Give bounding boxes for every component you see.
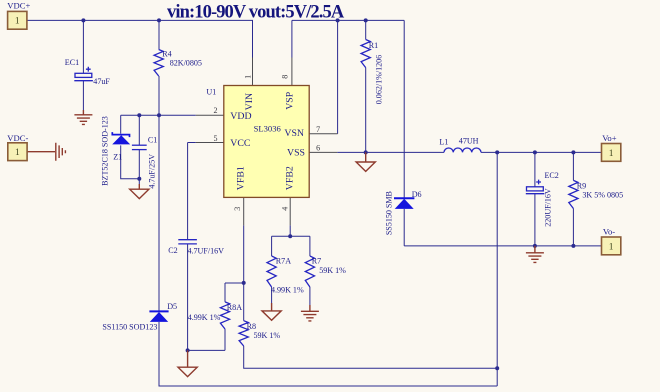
svg-text:R8: R8 — [247, 322, 256, 331]
svg-text:3K 5% 0805: 3K 5% 0805 — [582, 191, 623, 200]
svg-text:82K/0805: 82K/0805 — [170, 59, 202, 68]
svg-text:220UF/16V: 220UF/16V — [544, 188, 553, 227]
svg-text:L1: L1 — [439, 138, 448, 147]
svg-text:vin:10-90V vout:5V/2.5A: vin:10-90V vout:5V/2.5A — [167, 2, 345, 22]
svg-text:4.7UF/16V: 4.7UF/16V — [188, 247, 225, 256]
svg-text:R9: R9 — [577, 181, 586, 190]
svg-text:EC2: EC2 — [545, 171, 559, 180]
svg-text:Z1: Z1 — [113, 152, 122, 161]
svg-text:EC1: EC1 — [65, 58, 79, 67]
svg-text:SS5150 SMB: SS5150 SMB — [384, 191, 393, 235]
svg-text:VFB2: VFB2 — [285, 166, 296, 190]
svg-text:47uF: 47uF — [93, 77, 110, 86]
svg-text:C1: C1 — [148, 135, 157, 144]
svg-text:R7: R7 — [312, 257, 321, 266]
svg-text:59K 1%: 59K 1% — [319, 266, 346, 275]
svg-text:1: 1 — [15, 148, 20, 158]
svg-text:5: 5 — [214, 134, 218, 143]
svg-text:59K 1%: 59K 1% — [254, 331, 281, 340]
svg-text:7: 7 — [316, 125, 320, 134]
svg-text:6: 6 — [316, 144, 320, 153]
svg-text:VFB1: VFB1 — [235, 166, 246, 190]
svg-text:4.7uF/25V: 4.7uF/25V — [147, 154, 156, 189]
svg-text:VSN: VSN — [284, 128, 304, 139]
svg-text:VDD: VDD — [230, 111, 251, 122]
svg-text:Vo+: Vo+ — [602, 133, 616, 143]
svg-text:D5: D5 — [167, 302, 177, 311]
svg-text:4.99K 1%: 4.99K 1% — [271, 285, 304, 294]
svg-text:R8A: R8A — [227, 303, 242, 312]
svg-text:VSS: VSS — [287, 147, 305, 158]
svg-text:R1: R1 — [369, 41, 378, 50]
svg-text:0.062/1%/1206: 0.062/1%/1206 — [374, 55, 383, 104]
svg-text:1: 1 — [243, 75, 252, 79]
svg-text:U1: U1 — [206, 87, 216, 96]
svg-text:D6: D6 — [412, 190, 422, 199]
svg-text:C2: C2 — [168, 246, 177, 255]
svg-text:1: 1 — [609, 149, 614, 159]
svg-text:VDC+: VDC+ — [7, 1, 30, 11]
svg-text:BZT52C18 SOD-123: BZT52C18 SOD-123 — [101, 116, 110, 186]
svg-text:1: 1 — [609, 242, 614, 252]
svg-text:VIN: VIN — [244, 93, 255, 110]
svg-text:1: 1 — [15, 17, 20, 27]
svg-text:4.99K 1%: 4.99K 1% — [188, 313, 221, 322]
svg-text:VSP: VSP — [285, 91, 296, 110]
svg-text:4: 4 — [280, 207, 289, 211]
svg-text:SS1150 SOD123: SS1150 SOD123 — [102, 323, 157, 332]
svg-text:2: 2 — [214, 106, 218, 115]
svg-text:8: 8 — [281, 75, 290, 79]
svg-text:Vo-: Vo- — [603, 226, 615, 236]
svg-text:VDC-: VDC- — [7, 133, 28, 143]
svg-text:47UH: 47UH — [459, 137, 479, 146]
svg-text:R4: R4 — [162, 49, 171, 58]
svg-text:SL3036: SL3036 — [254, 124, 282, 134]
svg-text:VCC: VCC — [230, 138, 250, 149]
svg-text:R7A: R7A — [276, 257, 291, 266]
svg-text:3: 3 — [233, 207, 242, 211]
